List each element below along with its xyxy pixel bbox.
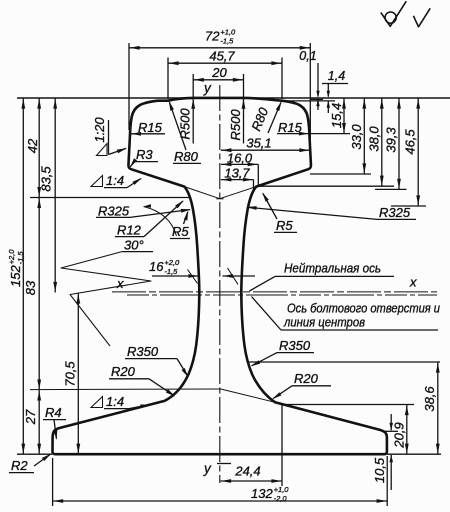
svg-text:R350: R350 (127, 344, 159, 359)
svg-text:38,0: 38,0 (367, 126, 382, 152)
svg-text:83,5: 83,5 (39, 166, 54, 192)
svg-text:-1,5: -1,5 (16, 251, 25, 265)
svg-text:152: 152 (8, 265, 23, 287)
svg-text:x: x (409, 275, 417, 290)
svg-text:35,1: 35,1 (246, 136, 271, 151)
svg-text:1:4: 1:4 (106, 394, 124, 409)
svg-text:0,1: 0,1 (299, 49, 316, 63)
svg-text:27: 27 (23, 409, 38, 425)
svg-text:-2,0: -2,0 (274, 494, 288, 503)
svg-text:83: 83 (23, 280, 38, 295)
svg-text:70,5: 70,5 (63, 361, 78, 387)
svg-text:45,7: 45,7 (209, 49, 235, 64)
svg-text:38,6: 38,6 (422, 386, 437, 412)
svg-text:20: 20 (211, 65, 227, 80)
svg-text:42: 42 (25, 138, 40, 153)
svg-text:20,9: 20,9 (392, 422, 407, 448)
svg-text:y: y (203, 81, 212, 96)
svg-text:R20: R20 (294, 371, 319, 386)
svg-text:+2,0: +2,0 (7, 249, 16, 265)
svg-text:30°: 30° (124, 238, 144, 253)
svg-text:13,7: 13,7 (224, 166, 250, 181)
svg-text:10,5: 10,5 (372, 457, 387, 483)
svg-text:R80: R80 (174, 149, 199, 164)
svg-text:39,3: 39,3 (384, 127, 399, 153)
svg-text:1:20: 1:20 (92, 117, 107, 143)
svg-text:1,4: 1,4 (328, 69, 345, 83)
svg-text:-1,5: -1,5 (164, 267, 178, 276)
svg-text:y: y (203, 461, 212, 476)
svg-text:R20: R20 (111, 364, 136, 379)
svg-text:46,5: 46,5 (403, 129, 418, 155)
svg-text:132: 132 (251, 486, 273, 501)
svg-text:1:4: 1:4 (106, 173, 124, 188)
svg-text:Ось болтового отверстия и: Ось болтового отверстия и (287, 301, 440, 316)
svg-text:Нейтральная ось: Нейтральная ось (284, 261, 381, 276)
svg-text:линия центров: линия центров (283, 315, 365, 330)
svg-text:+1,0: +1,0 (220, 28, 236, 37)
svg-text:R4: R4 (45, 405, 62, 420)
svg-text:72: 72 (205, 29, 220, 44)
svg-text:16: 16 (149, 259, 164, 274)
svg-text:15,4: 15,4 (329, 103, 344, 128)
svg-text:R350: R350 (279, 338, 311, 353)
svg-text:+2,0: +2,0 (164, 258, 180, 267)
svg-text:R12: R12 (117, 223, 142, 238)
svg-text:-1,5: -1,5 (220, 37, 234, 46)
svg-text:R15: R15 (138, 120, 163, 135)
svg-text:R325: R325 (379, 205, 411, 220)
svg-text:x: x (116, 276, 124, 291)
svg-text:R2: R2 (11, 458, 28, 473)
svg-text:16,0: 16,0 (227, 150, 253, 165)
svg-text:R5: R5 (276, 218, 293, 233)
svg-text:R500: R500 (228, 109, 243, 141)
svg-text:R325: R325 (98, 204, 130, 219)
svg-text:+1,0: +1,0 (274, 485, 290, 494)
svg-text:R3: R3 (136, 147, 153, 162)
svg-text:R500: R500 (178, 108, 193, 140)
svg-text:33,0: 33,0 (349, 124, 364, 150)
svg-text:R5: R5 (172, 224, 189, 239)
svg-text:24,4: 24,4 (234, 464, 260, 479)
